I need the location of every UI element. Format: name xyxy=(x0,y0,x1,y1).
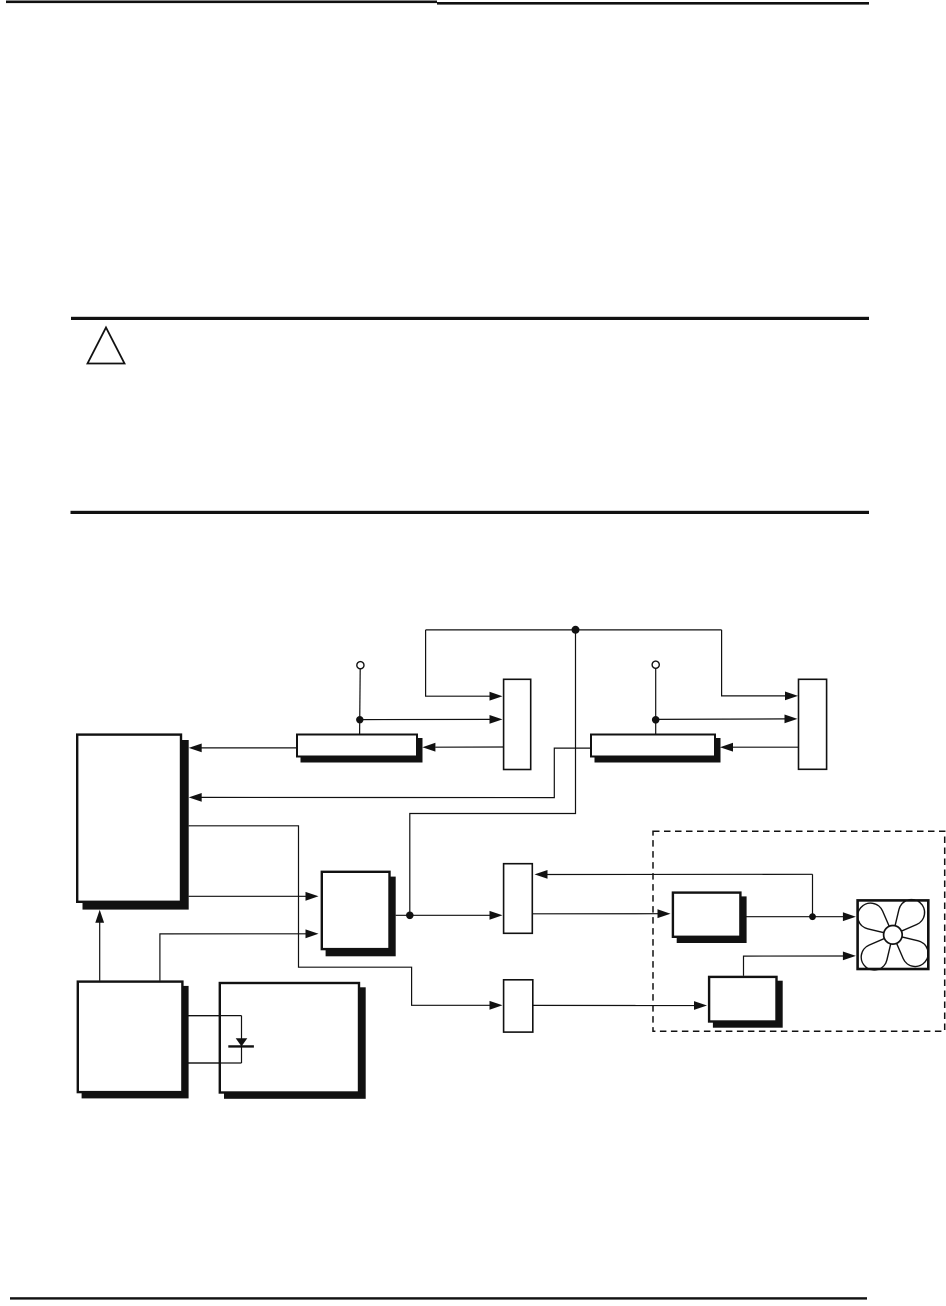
page bottom rule xyxy=(10,1297,867,1299)
diode D1 xyxy=(236,1038,248,1046)
arrow into connector J3 right side xyxy=(535,870,548,879)
arrow into connector J2 upper xyxy=(785,692,798,701)
module M1 shadow xyxy=(677,896,747,943)
diode D1 cathode bar xyxy=(228,1045,254,1047)
control block xyxy=(322,872,390,949)
wire: control block to connector J3 xyxy=(396,914,490,916)
wire: diode branch lower xyxy=(188,1062,242,1064)
wire: diode branch vertical xyxy=(241,1016,243,1063)
wire: fan node back to connector J3 xyxy=(547,873,813,875)
switch S1 open terminal xyxy=(357,662,364,669)
arrow into module M1 xyxy=(658,909,671,918)
wire: module M1 to fan xyxy=(742,916,844,918)
wire: main block to control block xyxy=(189,895,306,897)
arrow into control block lower xyxy=(306,929,319,938)
wire: lower-left block to control block xyxy=(160,934,306,981)
wire: connector J1 to bar B1 xyxy=(436,746,504,748)
diode block shadow xyxy=(224,987,366,1099)
wire: bar B2 to main block xyxy=(202,748,591,798)
note rule lower xyxy=(71,511,870,514)
diode block xyxy=(220,983,359,1093)
arrow into fan upper xyxy=(843,912,856,921)
wire: top bus left drop to connector J1 xyxy=(426,630,491,696)
wire: diode branch upper xyxy=(188,1015,242,1017)
page top rule left segment xyxy=(6,1,437,4)
bar B1 shadow xyxy=(301,738,423,763)
node: dot on control output line xyxy=(406,912,414,920)
switch S2 open terminal xyxy=(652,661,659,668)
connector J2 xyxy=(799,679,827,769)
wire: top bus right drop to connector J2 xyxy=(722,630,786,696)
control block shadow xyxy=(326,877,396,957)
arrow into connector J4 xyxy=(490,1001,503,1010)
bar B2 shadow xyxy=(595,738,721,763)
arrow into bar B1 xyxy=(422,743,435,752)
fan hub xyxy=(884,926,903,945)
fan frame xyxy=(858,900,929,969)
bar B1 xyxy=(297,735,417,757)
wire: switch S2 stem xyxy=(655,668,657,733)
connector J1 xyxy=(504,679,531,769)
fan assembly dashed enclosure xyxy=(653,831,945,1031)
wire: junction bus down and across to node dot xyxy=(410,630,576,915)
fan blades xyxy=(852,894,933,975)
module M1 xyxy=(673,893,741,937)
module M2 xyxy=(709,977,776,1022)
wire: switch S1 stem xyxy=(359,669,362,734)
arrow into connector J1 middle xyxy=(490,715,503,724)
wire: module M2 up and to fan xyxy=(744,956,844,976)
arrow into main block from bar B1 xyxy=(189,744,202,753)
lower-left block xyxy=(78,982,183,1093)
arrow into bar B2 xyxy=(720,743,733,752)
arrow into main block from bar B2 xyxy=(189,793,202,802)
wire: lower-left block up to main block xyxy=(99,922,101,981)
wire: connector J2 to bar B2 xyxy=(733,746,799,748)
main block shadow xyxy=(83,740,189,910)
module M2 shadow xyxy=(713,981,783,1028)
wire: main block to connector J4 xyxy=(189,826,490,1006)
switch S1 node xyxy=(356,716,363,723)
wire: diode branch redraw over block xyxy=(188,1016,242,1063)
warning triangle xyxy=(88,328,125,364)
arrow up into main block xyxy=(95,910,104,923)
bar B2 xyxy=(591,735,715,757)
note rule upper xyxy=(71,317,869,320)
wire: bar B1 to main block xyxy=(202,747,297,749)
wire: switch S1 node to connector J1 xyxy=(360,718,491,720)
arrow into connector J1 upper xyxy=(490,692,503,701)
wire: top bus xyxy=(426,629,722,631)
arrow into module M2 xyxy=(694,1001,707,1010)
lower-left block shadow xyxy=(82,986,189,1099)
wire: switch S2 node to connector J2 xyxy=(656,718,785,721)
arrow into connector J2 middle xyxy=(785,715,798,724)
page top rule right segment xyxy=(437,2,869,5)
connector J4 xyxy=(504,980,533,1032)
arrow into connector J3 left xyxy=(490,911,503,920)
arrow into control block upper xyxy=(306,892,319,901)
node: fan line junction xyxy=(809,913,816,920)
arrow into fan lower xyxy=(843,952,856,961)
connector J3 xyxy=(504,864,533,934)
wire: connector J4 to module M2 xyxy=(533,1004,695,1006)
wire: fan node up xyxy=(812,874,814,916)
switch S2 node xyxy=(652,716,660,724)
main block xyxy=(77,735,181,902)
node: top bus junction xyxy=(572,626,580,634)
wire: connector J3 to module M1 xyxy=(532,913,658,915)
